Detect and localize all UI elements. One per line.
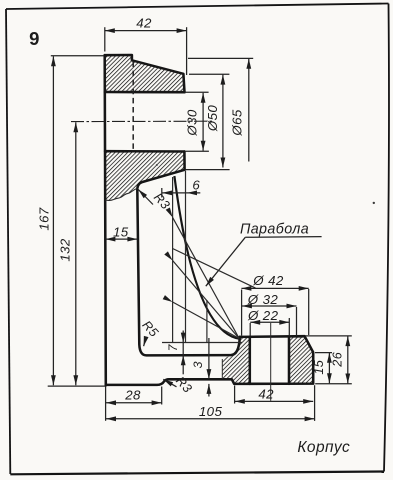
svg-text:132: 132	[58, 238, 73, 261]
svg-text:6: 6	[192, 177, 200, 192]
svg-text:167: 167	[36, 207, 51, 230]
svg-text:15: 15	[113, 224, 129, 239]
svg-text:Ø 22: Ø 22	[247, 308, 279, 323]
svg-text:15: 15	[312, 359, 326, 374]
svg-text:7: 7	[166, 343, 180, 351]
svg-text:Корпус: Корпус	[297, 439, 350, 456]
svg-text:Ø50: Ø50	[205, 105, 220, 133]
svg-text:Ø65: Ø65	[230, 109, 245, 137]
svg-text:Ø 42: Ø 42	[252, 273, 284, 288]
svg-text:28: 28	[124, 388, 141, 403]
svg-text:R3: R3	[173, 374, 195, 396]
svg-text:Парабола: Парабола	[240, 221, 309, 237]
svg-text:9: 9	[29, 28, 39, 49]
svg-text:3: 3	[191, 361, 205, 368]
svg-text:Ø30: Ø30	[185, 109, 200, 137]
svg-text:42: 42	[136, 16, 152, 31]
svg-text:Ø 32: Ø 32	[247, 292, 279, 307]
svg-text:R5: R5	[139, 318, 161, 340]
svg-text:26: 26	[331, 352, 345, 368]
svg-text:42: 42	[258, 386, 274, 401]
svg-text:105: 105	[199, 404, 223, 419]
